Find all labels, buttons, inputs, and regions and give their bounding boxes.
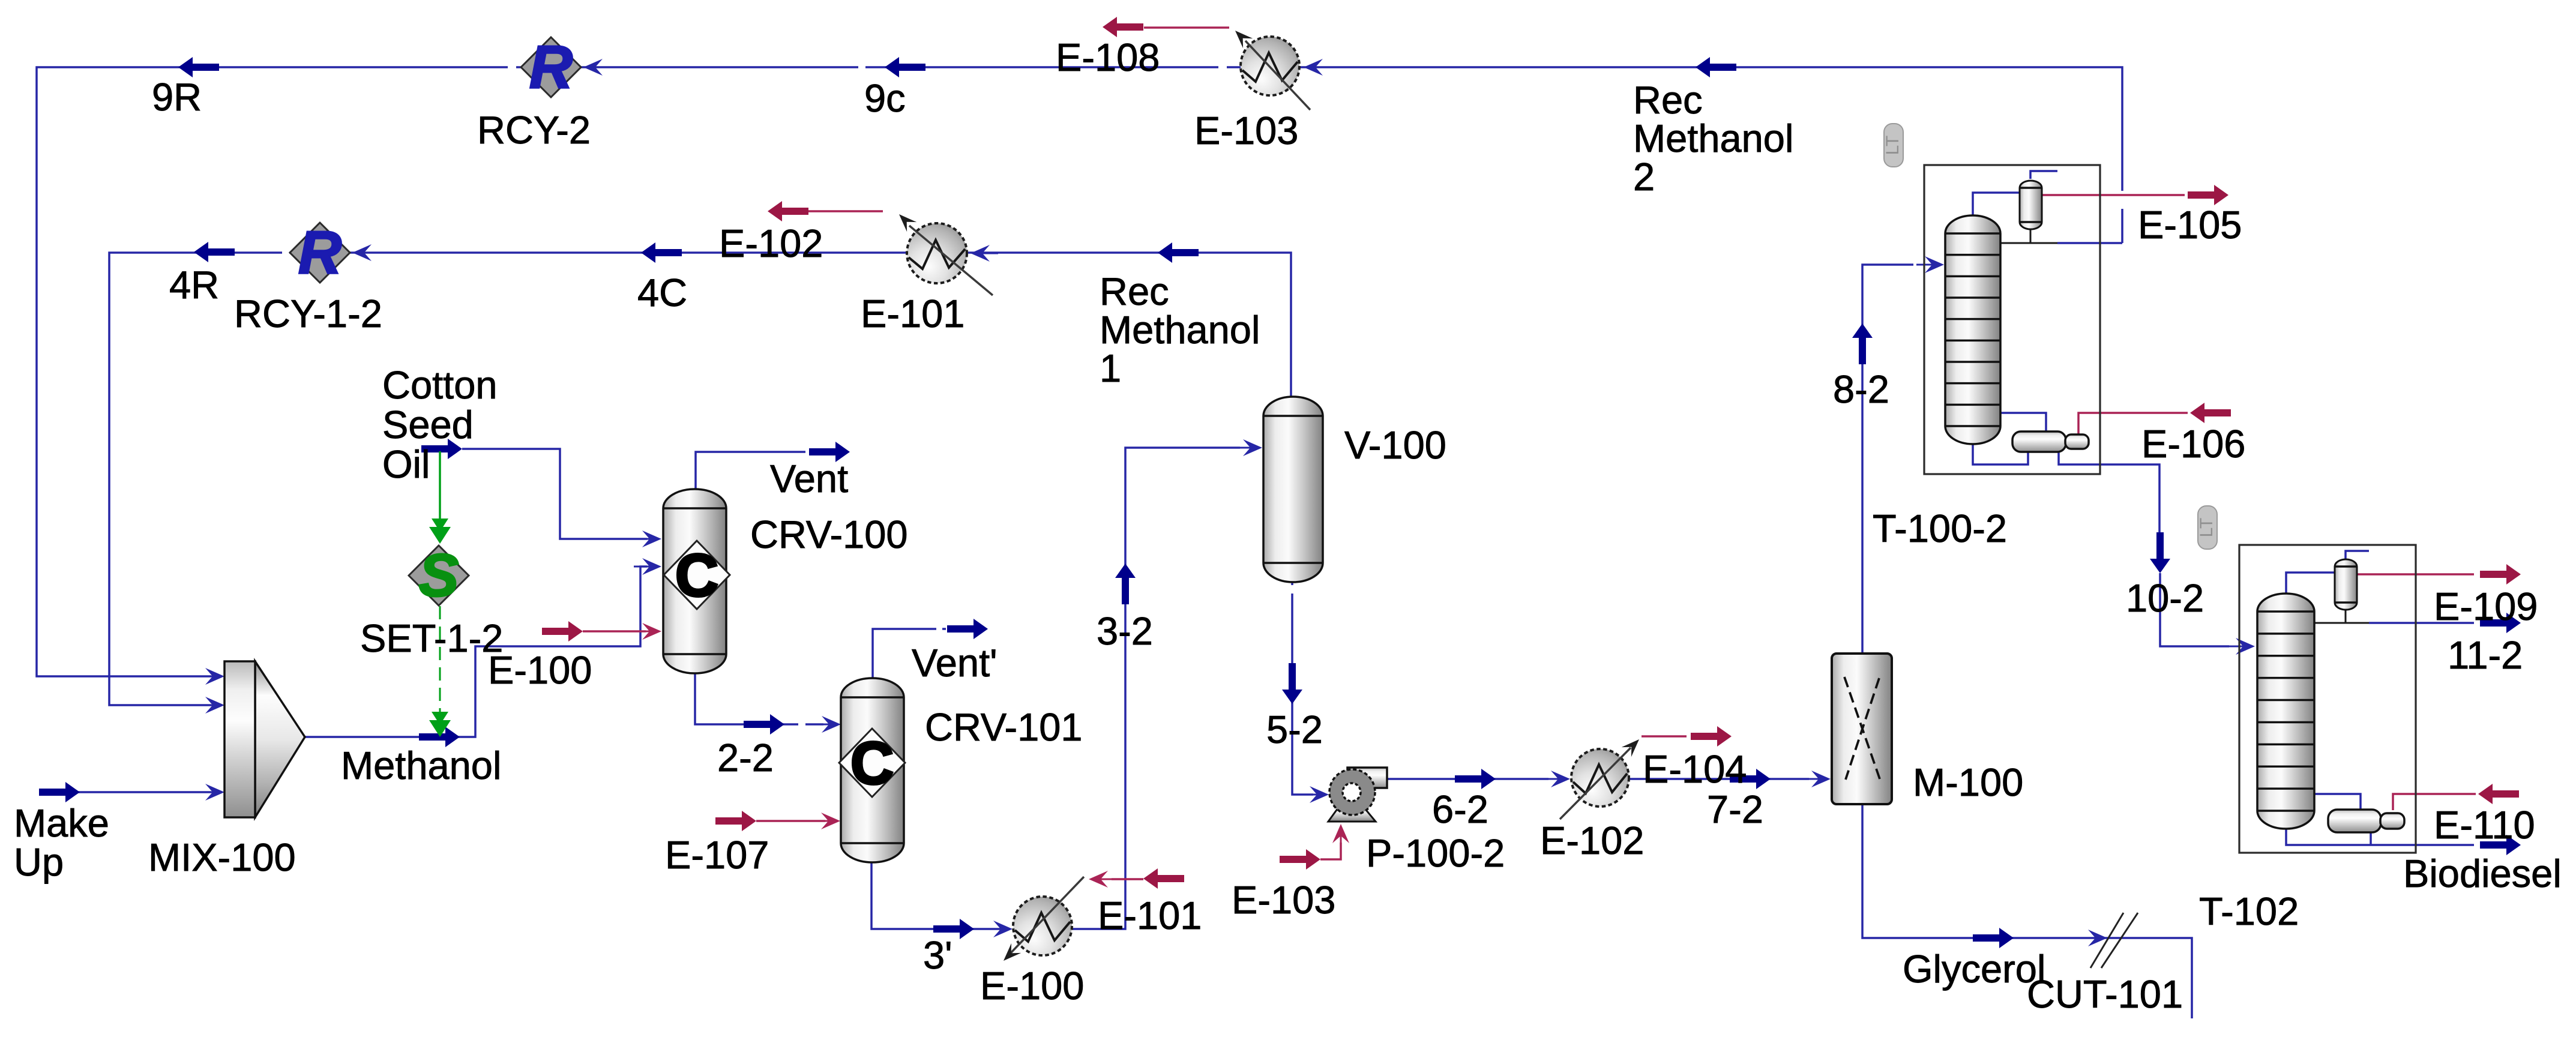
- svg-text:V-100: V-100: [1344, 423, 1446, 467]
- svg-text:Vent': Vent': [912, 641, 998, 685]
- svg-text:RCY-2: RCY-2: [477, 108, 591, 152]
- svg-text:S: S: [419, 542, 459, 609]
- svg-text:CRV-101: CRV-101: [925, 705, 1083, 749]
- svg-text:3': 3': [923, 933, 952, 977]
- svg-text:Seed: Seed: [382, 403, 474, 446]
- svg-text:Glycerol: Glycerol: [1903, 947, 2045, 991]
- svg-text:2-2: 2-2: [717, 736, 774, 780]
- svg-text:Cotton: Cotton: [382, 363, 498, 407]
- svg-text:1: 1: [1100, 346, 1121, 390]
- svg-text:Oil: Oil: [382, 442, 430, 486]
- svg-text:9c: 9c: [864, 76, 906, 120]
- svg-text:7-2: 7-2: [1707, 787, 1763, 831]
- svg-text:Biodiesel: Biodiesel: [2403, 852, 2562, 895]
- svg-text:C: C: [850, 730, 894, 797]
- svg-text:Up: Up: [14, 840, 64, 884]
- svg-text:C: C: [675, 542, 718, 609]
- svg-text:Rec: Rec: [1633, 78, 1703, 122]
- svg-text:Rec: Rec: [1100, 269, 1169, 313]
- svg-text:E-110: E-110: [2434, 803, 2535, 847]
- svg-text:E-100: E-100: [488, 648, 592, 692]
- svg-text:Vent: Vent: [770, 457, 848, 500]
- svg-text:R: R: [529, 34, 573, 101]
- svg-text:RCY-1-2: RCY-1-2: [234, 292, 382, 335]
- svg-text:4C: 4C: [637, 271, 687, 314]
- svg-text:E-102: E-102: [1540, 819, 1644, 862]
- svg-text:4R: 4R: [169, 263, 219, 307]
- svg-text:E-106: E-106: [2141, 422, 2245, 466]
- svg-text:Methanol: Methanol: [1100, 308, 1260, 352]
- svg-text:M-100: M-100: [1913, 760, 2023, 804]
- svg-text:9R: 9R: [152, 75, 202, 119]
- svg-text:E-107: E-107: [665, 833, 769, 877]
- svg-text:SET-1-2: SET-1-2: [360, 616, 503, 660]
- svg-text:LT: LT: [1883, 136, 1903, 155]
- svg-text:11-2: 11-2: [2448, 633, 2523, 677]
- svg-text:8-2: 8-2: [1833, 367, 1889, 411]
- svg-text:CRV-100: CRV-100: [750, 512, 908, 556]
- svg-text:6-2: 6-2: [1432, 787, 1488, 831]
- svg-text:CUT-101: CUT-101: [2027, 972, 2183, 1016]
- svg-text:Make: Make: [14, 801, 109, 845]
- svg-text:E-105: E-105: [2138, 203, 2242, 247]
- svg-text:E-103: E-103: [1232, 878, 1335, 922]
- svg-text:E-103: E-103: [1194, 109, 1298, 152]
- svg-text:R: R: [298, 219, 342, 286]
- svg-text:2: 2: [1633, 155, 1655, 199]
- svg-text:E-101: E-101: [1098, 894, 1202, 937]
- svg-text:E-100: E-100: [980, 964, 1084, 1008]
- svg-text:10-2: 10-2: [2126, 576, 2204, 620]
- svg-text:T-100-2: T-100-2: [1873, 506, 2007, 550]
- svg-text:5-2: 5-2: [1266, 708, 1323, 751]
- svg-text:T-102: T-102: [2199, 889, 2299, 933]
- svg-text:E-109: E-109: [2434, 585, 2538, 628]
- svg-text:3-2: 3-2: [1097, 609, 1153, 653]
- svg-text:E-101: E-101: [861, 292, 964, 335]
- svg-text:MIX-100: MIX-100: [148, 835, 296, 879]
- svg-text:E-102: E-102: [719, 221, 823, 265]
- svg-text:E-108: E-108: [1056, 35, 1160, 79]
- svg-text:LT: LT: [2197, 518, 2216, 538]
- svg-text:Methanol: Methanol: [341, 744, 501, 787]
- svg-text:E-104: E-104: [1643, 747, 1747, 791]
- svg-text:Methanol: Methanol: [1633, 116, 1793, 160]
- svg-text:P-100-2: P-100-2: [1366, 831, 1505, 875]
